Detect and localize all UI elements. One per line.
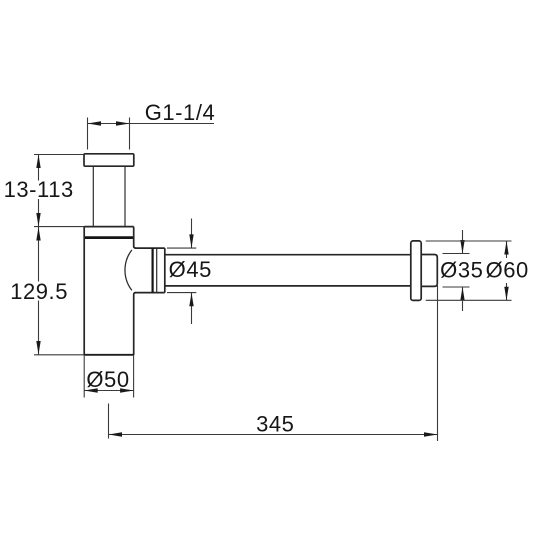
svg-text:G1-1/4: G1-1/4 — [145, 100, 216, 125]
dimension D60 top extension line — [426, 240, 512, 242]
dimension D60 bottom extension line — [426, 299, 512, 301]
dimension D60 upper line — [506, 241, 508, 258]
dimension D45 lower line — [191, 293, 193, 324]
dimension D60 down arrow — [504, 287, 508, 301]
svg-text:Ø50: Ø50 — [86, 367, 129, 392]
dimension G1-1/4 left extension line — [87, 118, 89, 150]
outlet pipe top edge — [165, 254, 411, 256]
dimension D50 left arrow — [84, 388, 98, 392]
body bottom line — [84, 354, 134, 356]
dimension G1-1/4 left arrow — [88, 121, 102, 125]
svg-text:Ø60: Ø60 — [486, 258, 529, 283]
hub fillet arc — [125, 250, 132, 291]
dimension 129.5 line lower segment — [38, 301, 40, 355]
dimension D45 top extension line — [167, 247, 196, 249]
body left wall — [83, 227, 85, 355]
dimension D35 top extension line — [443, 253, 470, 255]
dimension 13-113 down arrow — [36, 213, 40, 227]
flange (top inlet flange) — [84, 154, 134, 166]
body right wall lower — [134, 293, 136, 355]
dimension 345 right arrow — [424, 432, 438, 436]
dimension 345 left arrow — [109, 432, 123, 436]
hub and nut bottom line — [135, 292, 165, 294]
svg-text:13-113: 13-113 — [4, 177, 74, 202]
dimension G1-1/4 right extension line — [129, 118, 131, 150]
dimension 345 line — [109, 434, 438, 436]
dimension D45 up arrow — [189, 293, 193, 307]
svg-text:Ø35: Ø35 — [440, 258, 483, 283]
wall flange escutcheon — [411, 241, 421, 301]
nut right edge — [164, 248, 166, 293]
dimension 345 right extension line — [437, 283, 439, 441]
dimension G1-1/4 line — [88, 123, 215, 125]
dimension D45 upper line — [191, 219, 193, 248]
svg-text:Ø45: Ø45 — [169, 257, 212, 282]
dimension 13-113 top extension line — [34, 154, 84, 156]
dimension D35 upper line — [462, 230, 464, 254]
dimension D35 bottom extension line — [443, 286, 470, 288]
inlet pipe right wall — [124, 166, 126, 226]
inlet pipe left wall — [92, 166, 94, 226]
dimension D50 right extension line — [133, 355, 135, 398]
dimension 129.5 extension line bottom — [34, 354, 84, 356]
dimension 129.5 up arrow — [36, 227, 40, 241]
nut left face (thick) — [152, 248, 154, 293]
dimension 129.5 extension line top — [34, 226, 84, 228]
dimension D60 lower line — [506, 283, 508, 300]
outlet pipe bottom edge — [165, 285, 411, 287]
dimension D50 line — [84, 390, 133, 392]
dimension 13-113 line lower segment — [38, 199, 40, 227]
dimension D35 down arrow — [460, 240, 464, 254]
dimension D60 up arrow — [504, 241, 508, 255]
body cap thick line — [84, 236, 134, 239]
svg-text:345: 345 — [256, 412, 294, 437]
hub and nut top line — [135, 247, 165, 249]
body right wall upper — [134, 227, 136, 249]
dimension 129.5 down arrow — [36, 341, 40, 355]
svg-text:129.5: 129.5 — [10, 279, 68, 304]
nut inner face line — [156, 248, 158, 293]
dimension 13-113 line upper segment — [38, 155, 40, 181]
body top shoulder line — [84, 226, 134, 228]
dimension D50 right arrow — [120, 388, 134, 392]
dimension 345 left extension line — [108, 404, 110, 439]
dimension D50 left extension line — [83, 355, 85, 398]
dimension G1-1/4 right arrow — [116, 121, 130, 125]
dimension D45 bottom extension line — [167, 292, 196, 294]
dimension D45 down arrow — [189, 234, 193, 248]
wall pipe stub — [421, 255, 437, 287]
dimension D35 up arrow — [460, 287, 464, 301]
dimension 129.5 line upper segment — [38, 227, 40, 282]
dimension D35 lower line — [462, 287, 464, 311]
dimension 13-113 up arrow — [36, 155, 40, 169]
